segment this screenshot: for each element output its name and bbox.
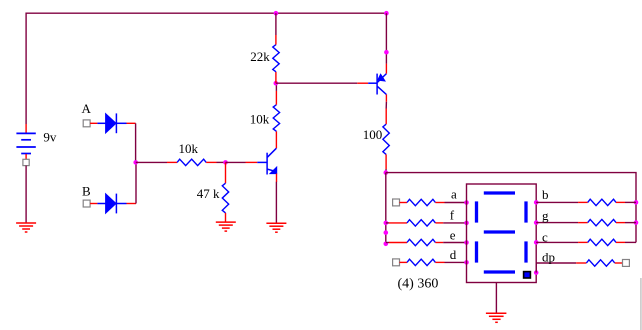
wire battery top red lead (25, 124, 27, 133)
wire top rail from battery to 22k and PNP emitter (26, 13, 386, 124)
resistor R3 10k vertical (273, 105, 279, 132)
segment lower-right c (524, 241, 527, 262)
svg-text:c: c (542, 230, 548, 245)
node junction below 100 (384, 170, 389, 175)
wire row g to right rail (616, 222, 625, 224)
segment upper-left f (475, 201, 478, 222)
wire display box to ground (495, 283, 497, 314)
wire top bus to right rail (386, 173, 636, 243)
svg-text:22k: 22k (250, 49, 270, 64)
node pin f dot (464, 221, 469, 226)
transistor Q1 NPN (257, 148, 276, 174)
wire row b from pin (536, 201, 578, 203)
resistor 360 row a (407, 199, 435, 205)
node junction base / 47k (223, 160, 228, 165)
resistor 360 row dp (586, 260, 614, 266)
svg-text:f: f (450, 208, 455, 223)
wire row e to pin e (435, 242, 443, 244)
node pin c dot (534, 240, 539, 245)
node pin b dot (534, 200, 539, 205)
window edge line bottom right (640, 278, 642, 330)
wire Q1 collector red lead up (275, 131, 277, 148)
svg-text:10k: 10k (179, 141, 199, 156)
wire row c to right rail (616, 241, 625, 243)
terminal square row dp (623, 260, 630, 267)
transistor Q2 PNP (368, 74, 386, 95)
node dot left rail row f (384, 221, 389, 226)
node pin e dot (464, 240, 469, 245)
wire row e red lead left (386, 242, 389, 244)
wire diode A to junction (135, 123, 137, 162)
node dot right rail row g (634, 220, 639, 225)
node dot right rail row b (634, 200, 639, 205)
node pin d dot (464, 260, 469, 265)
wire diode B up to junction (135, 162, 137, 203)
wire row b to right rail (616, 201, 625, 203)
wire left rail down from junction (385, 173, 387, 244)
wire Q2 emitter red lead up (385, 64, 387, 74)
ground below battery (16, 223, 36, 232)
node junction dot top right corner (384, 11, 389, 16)
wire row c from pin (536, 241, 578, 243)
resistor 360 row g (588, 219, 616, 225)
diode D2 input B (97, 194, 126, 214)
segment middle g (484, 230, 515, 233)
wire row f to pin f (435, 222, 443, 224)
wire dp pin up along box edge (535, 263, 537, 273)
svg-text:B: B (82, 183, 91, 198)
wire junction to NPN base (226, 161, 246, 163)
wire R3 top red lead to junction (275, 91, 277, 105)
wire Q1 emitter down to ground (276, 174, 278, 182)
svg-text:a: a (451, 186, 457, 201)
segment upper-right b (524, 201, 527, 222)
wire row g from pin (536, 222, 578, 224)
wire 22k top red lead (275, 35, 277, 45)
node pin g dot (534, 220, 539, 225)
node pin a dot (464, 200, 469, 205)
resistor 360 row f (407, 220, 435, 226)
wire junction to R 10k (136, 161, 167, 163)
svg-text:(4) 360: (4) 360 (398, 277, 439, 292)
wire 22k bottom red lead (275, 72, 277, 83)
node dot left rail mid joint (384, 230, 389, 235)
node dot left rail row e (384, 242, 389, 247)
svg-text:47 k: 47 k (197, 186, 220, 201)
node junction 22k / 10k / PNP base (274, 81, 279, 86)
wire input A red lead (90, 122, 97, 124)
resistor R5 100 vertical (383, 124, 389, 154)
terminal square row d (393, 259, 400, 266)
wire 47k to ground red lead (225, 213, 227, 222)
wire junction to PNP base (276, 82, 358, 84)
svg-text:g: g (542, 208, 549, 223)
wire junction down to 47k red lead (225, 162, 227, 183)
wire row d red lead left (400, 261, 408, 263)
segment top a (484, 191, 515, 194)
terminal square input A (83, 120, 90, 127)
connector square below battery (23, 159, 29, 165)
resistor R2 47k vertical (222, 183, 228, 213)
wire battery bottom red lead (25, 154, 27, 159)
battery 9v (16, 133, 35, 153)
svg-text:9v: 9v (43, 129, 57, 144)
ground below Q1 emitter (266, 223, 286, 232)
wire row dp red lead right (615, 262, 623, 264)
svg-text:b: b (542, 187, 549, 202)
wire R 10k to base junction (206, 161, 216, 163)
svg-text:A: A (82, 101, 92, 116)
resistor 360 row c (588, 239, 616, 245)
segment decimal point dp (524, 272, 531, 278)
segment bottom d (484, 270, 515, 273)
wire row dp from pin (536, 262, 576, 264)
resistor 360 row e (407, 239, 435, 245)
svg-text:10k: 10k (250, 112, 270, 127)
wire row f red lead left (386, 222, 389, 224)
svg-text:100: 100 (363, 127, 383, 142)
svg-text:d: d (450, 247, 457, 262)
node joint dot on emitter wire (384, 50, 389, 55)
node junction dot top of 22k (274, 11, 279, 16)
wire 100 bottom red lead (385, 154, 387, 169)
terminal square input B (83, 200, 90, 207)
svg-text:dp: dp (542, 250, 555, 265)
wire diode A out red lead (127, 122, 136, 124)
resistor 360 row b (588, 199, 616, 205)
resistor R4 22k vertical (273, 45, 279, 72)
wire row a red lead left (400, 202, 408, 204)
wire diode B out red lead (127, 203, 137, 205)
wire battery to ground (25, 166, 27, 223)
ground below display (486, 313, 507, 322)
node junction diodes (133, 160, 138, 165)
resistor 360 row d (407, 259, 435, 265)
wire row a to pin a (435, 202, 444, 204)
diode D1 input A (97, 113, 126, 133)
segment lower-left e (475, 241, 478, 262)
node pin dp dot (534, 270, 539, 275)
ground below 47k (216, 222, 236, 231)
wire input B red lead (90, 203, 97, 205)
seven segment display U1 box (467, 184, 537, 283)
svg-text:e: e (450, 227, 456, 242)
terminal square row a (393, 199, 400, 206)
wire row d to pin d (435, 261, 444, 263)
wire Q2 collector down red lead (385, 95, 387, 102)
resistor R1 10k horizontal (177, 159, 206, 165)
